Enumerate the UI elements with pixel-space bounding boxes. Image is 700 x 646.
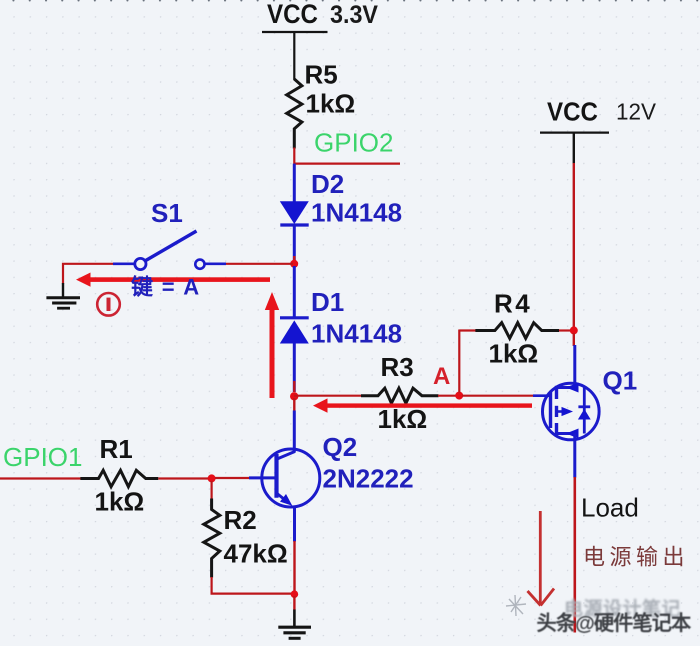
- junction D2/S1/D1: [290, 260, 298, 268]
- wire Q2 emitter to ground junction: [293, 541, 295, 592]
- wire junction to Q1 (red stub): [573, 333, 575, 346]
- svg-text:R2: R2: [224, 505, 257, 535]
- svg-text:R3: R3: [381, 352, 414, 382]
- wire R1 to base junction: [158, 477, 208, 479]
- svg-text:1kΩ: 1kΩ: [489, 339, 539, 369]
- junction R4/Q1 drain: [570, 326, 578, 334]
- wire junction to Q2 base: [215, 477, 250, 479]
- svg-text:1kΩ: 1kΩ: [378, 404, 428, 434]
- watermark scribble: [506, 595, 526, 616]
- wire D1 red stub: [293, 381, 295, 392]
- junction Q2 emitter/R2/ground: [291, 590, 299, 598]
- ground (S1): [46, 283, 80, 308]
- wire R2 to ground junction: [212, 577, 292, 594]
- annotation arrow 2 (up, at D1): [265, 292, 279, 398]
- junction D1/R3/Q2 collector: [290, 392, 298, 400]
- diode D2: [280, 164, 309, 261]
- resistor R1: [80, 470, 158, 486]
- svg-text:GPIO1: GPIO1: [3, 442, 82, 472]
- switch S1: [113, 231, 226, 270]
- svg-text:VCC: VCC: [267, 0, 318, 29]
- junction node A: [455, 392, 463, 400]
- resistor R3: [361, 388, 439, 403]
- svg-text:Q2: Q2: [323, 432, 358, 462]
- wire node A to R4: [458, 330, 460, 393]
- wire junction to ground (red stub): [293, 596, 295, 610]
- wire VCC 3.3V to R5: [293, 32, 295, 80]
- wire node A to Q1 gate: [462, 395, 533, 397]
- Q1 gate pin stub: [533, 394, 550, 397]
- svg-text:头条@硬件笔记本: 头条@硬件笔记本: [537, 611, 693, 635]
- annotation arrow 1 (left, at S1): [76, 273, 270, 287]
- wire R5 to GPIO2 stub: [294, 148, 400, 164]
- svg-text:12V: 12V: [616, 99, 657, 125]
- svg-text:VCC: VCC: [547, 97, 598, 127]
- svg-text:1kΩ: 1kΩ: [306, 89, 356, 119]
- svg-text:Q1: Q1: [603, 366, 638, 396]
- svg-text:R1: R1: [100, 434, 133, 464]
- resistor R5: [287, 79, 302, 149]
- transistor Q2 (NPN 2N2222): [249, 411, 320, 542]
- diode D1: [280, 266, 309, 392]
- svg-text:电源输出: 电源输出: [583, 545, 689, 570]
- svg-text:47kΩ: 47kΩ: [224, 539, 288, 569]
- ground (main): [278, 610, 311, 639]
- wire Q1 source to load output: [573, 477, 576, 633]
- svg-text:S1: S1: [151, 198, 183, 228]
- svg-text:GPIO2: GPIO2: [314, 128, 393, 158]
- wire GPIO1 to R1: [0, 477, 81, 479]
- wire R3 to node A: [438, 395, 456, 397]
- svg-text:3.3V: 3.3V: [330, 1, 378, 29]
- svg-text:2N2222: 2N2222: [323, 464, 414, 494]
- svg-text:1N4148: 1N4148: [311, 319, 402, 349]
- svg-text:R5: R5: [305, 60, 338, 90]
- svg-text:1N4148: 1N4148: [311, 198, 402, 228]
- wire junction to S1: [226, 263, 293, 265]
- transistor Q1 (P-channel MOSFET): [543, 345, 600, 478]
- svg-text:R4: R4: [494, 289, 532, 319]
- annotation circled 1: [97, 293, 120, 316]
- resistor R4: [459, 323, 570, 339]
- svg-text:Load: Load: [581, 493, 639, 523]
- wire VCC 12V rail: [573, 163, 575, 327]
- wire junction to R3: [294, 395, 361, 397]
- svg-text:1kΩ: 1kΩ: [95, 487, 145, 517]
- annotation arrow 3 (left, at R3): [313, 398, 532, 412]
- wire S1 to ground: [63, 264, 113, 284]
- svg-text:键 = A: 键 = A: [131, 275, 200, 300]
- svg-text:D2: D2: [311, 169, 344, 199]
- resistor R2: [204, 481, 220, 578]
- power VCC 12V: [540, 97, 657, 164]
- annotation arrow 4 (down, load current): [528, 511, 555, 606]
- svg-text:D1: D1: [311, 287, 344, 317]
- svg-text:A: A: [433, 363, 450, 390]
- wire D2 to junction (red stub): [293, 256, 295, 281]
- junction R1/R2/Q2 base: [208, 474, 216, 482]
- power VCC 3.3V: [262, 0, 378, 32]
- wire junction to Q2 collector red stub: [293, 398, 295, 411]
